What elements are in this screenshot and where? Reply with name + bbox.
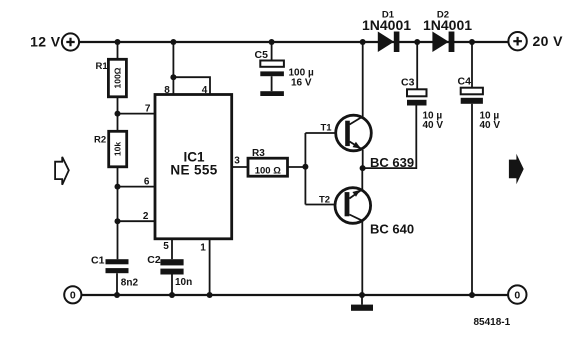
- svg-text:1: 1: [200, 242, 206, 253]
- svg-text:4: 4: [202, 85, 208, 96]
- svg-text:8: 8: [164, 85, 170, 96]
- svg-text:100 Ω: 100 Ω: [255, 165, 281, 176]
- svg-text:R2: R2: [94, 135, 106, 146]
- svg-text:T1: T1: [321, 123, 333, 134]
- svg-text:16 V: 16 V: [291, 78, 312, 89]
- svg-text:BC 639: BC 639: [370, 155, 414, 170]
- svg-text:T2: T2: [319, 195, 330, 206]
- svg-text:C5: C5: [255, 49, 269, 61]
- svg-text:5: 5: [163, 241, 169, 252]
- svg-text:C4: C4: [458, 76, 472, 88]
- svg-text:8n2: 8n2: [121, 278, 139, 289]
- svg-text:12 V: 12 V: [30, 34, 61, 50]
- svg-text:40 V: 40 V: [423, 120, 444, 131]
- svg-text:10n: 10n: [175, 277, 192, 288]
- svg-text:C1: C1: [91, 255, 105, 267]
- svg-text:7: 7: [145, 104, 151, 115]
- svg-text:0: 0: [70, 290, 76, 302]
- svg-text:40 V: 40 V: [480, 120, 501, 131]
- svg-text:20 V: 20 V: [533, 33, 564, 49]
- svg-text:3: 3: [234, 155, 240, 166]
- svg-text:NE 555: NE 555: [170, 163, 217, 178]
- svg-text:2: 2: [143, 211, 149, 222]
- svg-text:BC 640: BC 640: [370, 222, 414, 237]
- svg-text:C3: C3: [401, 77, 415, 89]
- svg-text:1N4001: 1N4001: [423, 17, 472, 33]
- svg-text:85418-1: 85418-1: [474, 317, 511, 328]
- svg-text:100Ω: 100Ω: [112, 67, 122, 88]
- svg-text:R1: R1: [96, 61, 109, 72]
- svg-text:1N4001: 1N4001: [362, 17, 411, 33]
- svg-text:R3: R3: [252, 148, 265, 159]
- svg-text:10k: 10k: [113, 142, 123, 156]
- svg-text:0: 0: [514, 289, 520, 301]
- svg-text:C2: C2: [147, 254, 161, 266]
- svg-text:6: 6: [144, 177, 150, 188]
